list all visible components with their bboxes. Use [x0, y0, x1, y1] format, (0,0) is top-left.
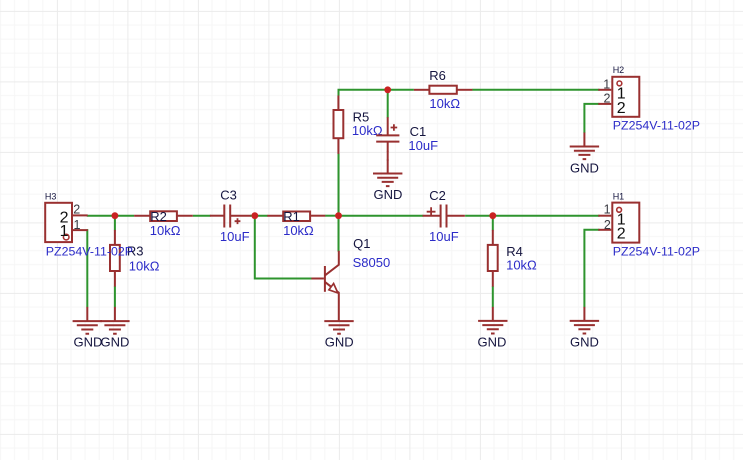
- svg-text:1: 1: [74, 218, 81, 232]
- svg-text:PZ254V-11-02P: PZ254V-11-02P: [613, 245, 700, 259]
- node A junction: [112, 212, 119, 219]
- svg-text:GND: GND: [570, 334, 599, 349]
- wire R1 to node C: [325, 215, 338, 217]
- wire R3 bottom to GND: [114, 286, 116, 307]
- svg-text:PZ254V-11-02P: PZ254V-11-02P: [46, 245, 133, 259]
- resistor R5: [334, 96, 383, 154]
- wire C2 to H1 pin1: [465, 215, 599, 217]
- svg-text:2: 2: [603, 92, 610, 106]
- svg-text:Q1: Q1: [353, 236, 370, 251]
- connector H1: [598, 191, 700, 258]
- svg-text:R2: R2: [150, 209, 167, 224]
- resistor R2: [134, 209, 193, 238]
- wire H2 pin2 corner down to GND: [584, 104, 599, 133]
- wire node E down to C1: [387, 90, 389, 118]
- ground GND under C1: [373, 160, 402, 203]
- ground GND under R3: [100, 307, 129, 350]
- node B junction: [251, 212, 258, 219]
- node C junction: [335, 212, 342, 219]
- ground GND under R4: [478, 307, 508, 350]
- wire node C to C2: [339, 215, 424, 217]
- svg-text:R6: R6: [429, 68, 446, 83]
- wire R6 to H2 pin1: [472, 89, 599, 91]
- svg-text:10kΩ: 10kΩ: [283, 223, 314, 238]
- wire main net y=215.7 from H3 pin2 to R2: [87, 215, 134, 217]
- wire R2 to C3: [193, 215, 211, 217]
- ground GND under Q1: [324, 321, 353, 349]
- svg-text:10kΩ: 10kΩ: [506, 257, 537, 272]
- connector H3: [45, 191, 133, 258]
- wire node C up to R5: [338, 154, 340, 216]
- svg-text:10kΩ: 10kΩ: [429, 96, 460, 111]
- svg-text:2: 2: [617, 226, 626, 243]
- svg-text:10kΩ: 10kΩ: [129, 258, 160, 273]
- svg-text:10kΩ: 10kΩ: [150, 223, 181, 238]
- svg-text:R1: R1: [283, 209, 300, 224]
- svg-text:H3: H3: [45, 191, 57, 201]
- svg-text:PZ254V-11-02P: PZ254V-11-02P: [613, 118, 700, 132]
- resistor R6: [414, 68, 473, 111]
- svg-text:10uF: 10uF: [408, 138, 438, 153]
- resistor R3: [110, 230, 160, 287]
- wire node C down to Q1 collector: [338, 216, 340, 252]
- svg-text:2: 2: [604, 218, 611, 232]
- svg-text:C2: C2: [429, 188, 446, 203]
- svg-text:S8050: S8050: [353, 255, 391, 270]
- svg-text:1: 1: [604, 203, 611, 217]
- svg-text:H1: H1: [613, 191, 625, 201]
- node D junction: [489, 212, 496, 219]
- wire R4 bottom to GND: [492, 286, 494, 307]
- svg-text:H2: H2: [613, 65, 625, 75]
- wire node D down to R4: [492, 216, 494, 231]
- transistor Q1: [311, 236, 390, 321]
- wire vertical node A down to R3: [114, 216, 116, 231]
- svg-text:GND: GND: [478, 334, 507, 349]
- svg-text:1: 1: [603, 77, 610, 91]
- ground GND under H1 pin2: [570, 307, 599, 350]
- svg-text:2: 2: [73, 202, 80, 216]
- capacitor C3: [210, 187, 251, 244]
- svg-text:GND: GND: [73, 334, 102, 349]
- svg-text:GND: GND: [325, 334, 354, 349]
- wire node B down to Q1 base: [255, 216, 312, 279]
- resistor R1: [267, 209, 325, 238]
- resistor R4: [488, 230, 537, 287]
- node E junction: [384, 86, 391, 93]
- capacitor C1: [376, 117, 438, 153]
- svg-text:1: 1: [60, 223, 69, 240]
- svg-text:2: 2: [617, 100, 626, 117]
- wire H1 pin2 corner down to GND: [584, 230, 599, 307]
- capacitor C2: [423, 188, 465, 244]
- svg-text:GND: GND: [100, 334, 129, 349]
- svg-text:GND: GND: [374, 187, 403, 202]
- wire C3 to R1: [250, 215, 268, 217]
- svg-text:10uF: 10uF: [220, 229, 250, 244]
- wire top net corner to R5 top: [339, 90, 414, 96]
- svg-text:GND: GND: [570, 160, 599, 175]
- ground GND under H2 pin2: [570, 133, 599, 176]
- svg-text:R5: R5: [353, 109, 370, 124]
- ground GND under H3 pin1: [73, 307, 103, 350]
- svg-text:10uF: 10uF: [429, 229, 459, 244]
- svg-text:C3: C3: [220, 187, 237, 202]
- connector H2: [598, 65, 700, 132]
- wire C1 bottom to GND: [387, 152, 389, 161]
- svg-text:C1: C1: [410, 124, 427, 139]
- wire H3 pin1 corner down to GND: [86, 230, 89, 307]
